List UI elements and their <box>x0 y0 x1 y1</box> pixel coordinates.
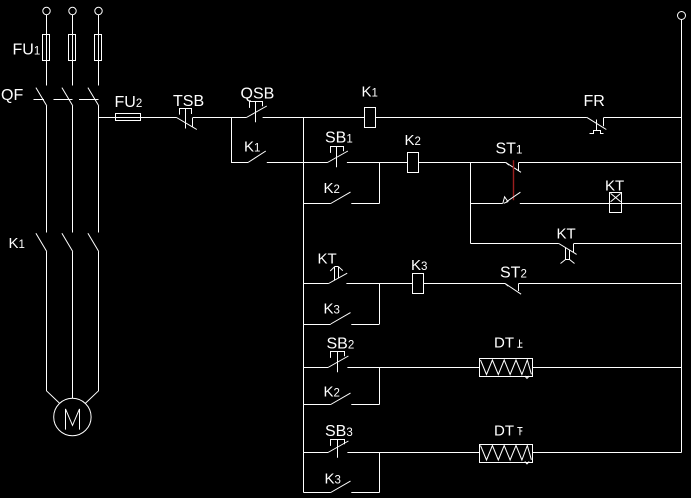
wire K1 coil to FR <box>376 117 587 119</box>
wire K3 coil to ST2 <box>424 283 505 285</box>
wire SB1 to K2 coil <box>347 162 408 164</box>
wire L2 to motor <box>72 252 74 399</box>
wire ST1 to right bus <box>519 162 682 164</box>
wire L1 below QF <box>46 106 48 233</box>
wire branch to K1 contact <box>231 162 248 164</box>
thermal relay FR element <box>596 120 598 131</box>
pushbutton QSB actuator <box>250 102 263 108</box>
wire FR to right bus <box>604 117 682 119</box>
svg-text:TSB: TSB <box>173 93 204 110</box>
wire right bus <box>681 20 683 453</box>
wire L2 below QF <box>72 106 74 233</box>
pushbutton SB2 actuator <box>331 352 345 358</box>
switch TSB actuator <box>180 109 192 115</box>
wire L1 to motor <box>47 252 60 404</box>
wire K3 contact to branch <box>351 324 379 326</box>
svg-text:KT: KT <box>557 226 576 243</box>
thermal relay FR NC contact <box>587 117 607 129</box>
wire DT-up to right bus <box>533 367 682 369</box>
wire phase L1 <box>46 15 48 86</box>
wire QSB to K1 branch node <box>263 117 304 119</box>
wire branch vertical at SB2 <box>379 368 381 405</box>
limit switch ST1 NO contact <box>503 197 508 204</box>
pushbutton SB1 NO contact <box>328 151 348 163</box>
wire junction vertical <box>470 163 472 244</box>
wire L3 below QF <box>98 106 100 233</box>
wire SB3 to DT coil <box>347 452 379 454</box>
wire bus to K3 contact <box>304 324 331 326</box>
wire SB2 to DT coil <box>347 367 379 369</box>
time relay coil KT <box>610 193 622 204</box>
wire K2 to branch <box>351 404 379 406</box>
wire junction to ST1 <box>471 162 506 164</box>
contactor K1 main pole 3 <box>88 233 99 251</box>
contactor K1 main pole 1 <box>36 233 47 251</box>
pushbutton QSB NO contact <box>246 106 266 118</box>
motor M <box>54 398 91 435</box>
electromagnet DT-up <box>480 359 533 377</box>
pushbutton SB2 NO contact <box>328 356 348 368</box>
svg-text:FR: FR <box>584 93 605 110</box>
wire ST2 to right bus <box>519 283 682 285</box>
wire K1 contact to bus <box>267 162 304 164</box>
fuse FU2 <box>116 114 141 121</box>
wire QSB branch down <box>231 118 233 163</box>
wire KT contact to right bus <box>574 243 682 245</box>
contact KT NO time-delay <box>329 273 348 283</box>
wire branch vertical at SB3 <box>379 453 381 493</box>
wire node to K1 coil <box>304 117 365 119</box>
coil K1 <box>365 108 376 128</box>
wire phase L3 <box>98 15 100 86</box>
wire main line from L3 to TSB <box>99 117 177 119</box>
motor letter M <box>66 409 80 430</box>
limit switch ST2 NC contact <box>505 284 508 287</box>
svg-text:KT: KT <box>605 178 624 195</box>
svg-text:DT: DT <box>494 335 514 352</box>
contact K3 NO holding <box>331 313 351 324</box>
wire KT coil to right bus <box>622 203 682 205</box>
breaker QF linkage bar <box>34 99 99 101</box>
wire phase L2 <box>72 15 74 86</box>
pushbutton SB3 NO contact <box>328 441 348 453</box>
wire TSB to QSB <box>193 117 247 119</box>
contact K2 NO holding <box>331 192 351 203</box>
contact K1 NO self-holding <box>248 151 266 163</box>
wire bus to KT NO contact <box>304 283 329 285</box>
terminal L2 <box>69 7 76 14</box>
electromagnet DT-down <box>480 445 533 463</box>
wire junction to ST1 lower contact <box>471 203 503 205</box>
contact KT NO delay device <box>330 267 343 281</box>
svg-text:KT: KT <box>318 251 337 268</box>
wire K3 to branch <box>351 492 379 494</box>
wire bus to SB2 <box>304 367 329 369</box>
wire junction to KT delayed contact <box>471 243 559 245</box>
breaker QF pole 3 <box>88 88 99 106</box>
wire K2 contact to branch <box>351 203 379 205</box>
wire bus corner to K3 contact <box>304 492 331 494</box>
svg-text:QF: QF <box>1 87 23 104</box>
fuse FU1 pole 1 <box>43 35 50 61</box>
terminal L1 <box>43 7 50 14</box>
svg-text:QSB: QSB <box>241 86 275 103</box>
contactor K1 main pole 2 <box>62 233 73 251</box>
switch TSB NC contact <box>177 118 197 130</box>
label DT-up subscript <box>517 340 522 348</box>
wire branch vertical at SB1 <box>379 163 381 204</box>
wire DT-down to right bus <box>533 452 682 454</box>
contact K2 NO parallel SB2 <box>331 393 351 404</box>
contact K3 NO parallel SB3 <box>331 481 351 492</box>
terminal L3 <box>95 7 102 14</box>
wire K2 coil to junction <box>419 162 471 164</box>
wire bus to SB1 <box>304 162 328 164</box>
svg-text:DT: DT <box>494 423 514 440</box>
wire branch vertical at KT row <box>379 284 381 325</box>
contact KT delay device <box>561 248 575 264</box>
wire left control bus <box>303 118 305 493</box>
coil K3 <box>413 274 424 294</box>
limit switch ST1 NC contact <box>506 163 509 166</box>
breaker QF pole 1 <box>36 88 47 106</box>
wire bus to K2 contact <box>304 203 331 205</box>
wire bus to K2 contact lower <box>304 404 331 406</box>
fuse FU1 pole 3 <box>95 35 102 61</box>
breaker QF pole 2 <box>62 88 73 106</box>
wire L3 to motor <box>85 252 98 404</box>
wire ST1 NO to KT coil <box>520 203 610 205</box>
wire bus to SB3 <box>304 452 329 454</box>
label DT-down subscript <box>517 428 522 436</box>
contact KT NC time-delay <box>559 244 577 255</box>
pushbutton SB1 actuator <box>331 147 344 153</box>
wire KT contact to K3 coil <box>346 283 412 285</box>
fuse FU1 pole 2 <box>69 35 76 61</box>
terminal right bus <box>678 12 686 20</box>
mechanical link ST1 (red) <box>513 160 515 200</box>
coil K2 <box>408 153 419 173</box>
pushbutton SB3 actuator <box>331 440 345 446</box>
